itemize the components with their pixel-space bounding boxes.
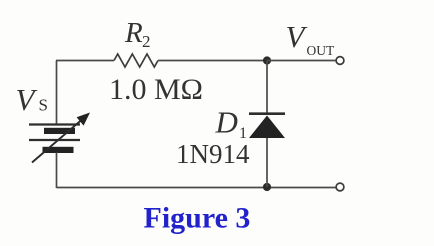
terminal VOUT (open circle) <box>336 57 344 65</box>
svg-text:1.0 MΩ: 1.0 MΩ <box>109 73 203 106</box>
svg-text:Figure 3: Figure 3 <box>144 202 251 235</box>
label R2 <box>124 17 151 51</box>
wire: top middle from R2 to junction <box>158 60 267 62</box>
svg-text:OUT: OUT <box>307 43 335 58</box>
wire: left vertical lower (VS to bottom wire) <box>56 153 58 189</box>
svg-text:R: R <box>124 17 143 49</box>
svg-text:V: V <box>16 82 38 117</box>
wire: left vertical upper (top wire to VS) <box>56 61 58 125</box>
svg-text:V: V <box>286 19 308 54</box>
label VOUT <box>286 19 335 58</box>
wire: top-left horizontal from VS to R2 <box>56 60 114 62</box>
svg-text:S: S <box>39 96 48 115</box>
caption Figure 3 <box>144 202 251 235</box>
wire: diode branch upper (junction to cathode) <box>266 61 268 114</box>
label VS <box>16 82 48 117</box>
value 1N914 (D1) <box>176 139 250 169</box>
wire: bottom horizontal <box>57 187 336 189</box>
junction: top node <box>263 56 271 64</box>
diode D1 <box>249 114 285 138</box>
svg-text:2: 2 <box>142 32 151 51</box>
resistor R2 <box>114 54 158 67</box>
svg-text:1N914: 1N914 <box>176 139 250 169</box>
label D1 <box>215 105 248 143</box>
variable source VS (battery with arrow) <box>29 113 90 163</box>
value 1.0 MΩ (R2) <box>109 73 203 106</box>
wire: diode branch lower (anode to bottom junction) <box>266 138 268 187</box>
wire: top junction to VOUT terminal <box>267 60 336 62</box>
svg-text:D: D <box>215 105 238 140</box>
terminal bottom (open circle) <box>336 183 344 191</box>
junction: bottom node <box>263 183 271 191</box>
